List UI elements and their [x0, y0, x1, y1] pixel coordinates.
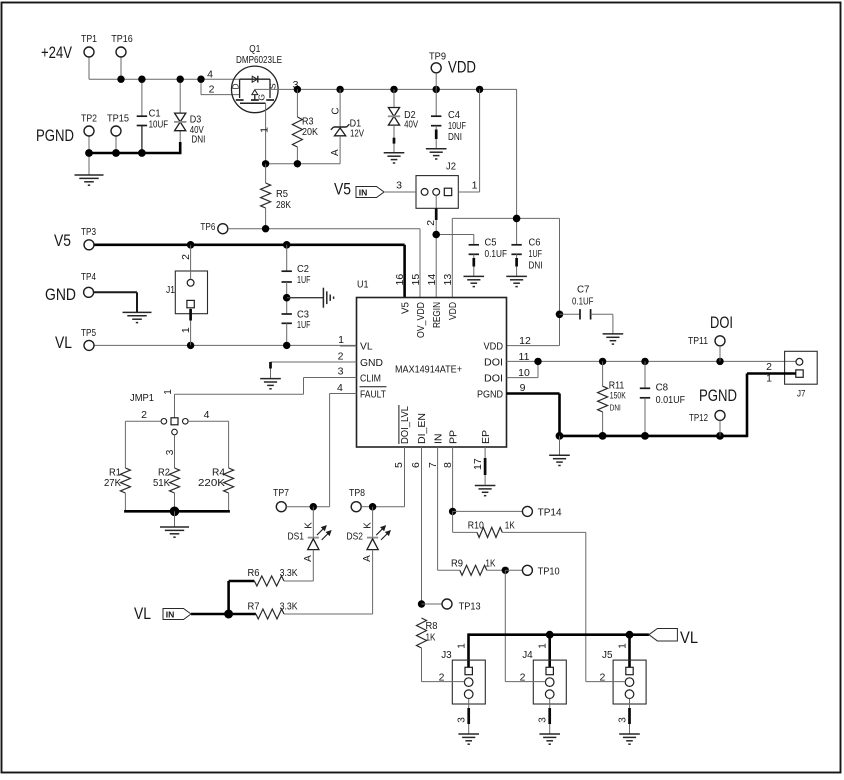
svg-text:12: 12 — [519, 335, 531, 347]
svg-text:D: D — [230, 83, 240, 89]
svg-text:DOI: DOI — [484, 356, 503, 368]
svg-text:3.3K: 3.3K — [280, 567, 298, 579]
svg-text:6: 6 — [410, 462, 422, 468]
svg-text:3: 3 — [396, 180, 402, 192]
svg-text:TP16: TP16 — [111, 33, 133, 45]
svg-text:VDD: VDD — [484, 341, 504, 353]
svg-text:A: A — [303, 555, 314, 562]
svg-text:27K: 27K — [104, 477, 121, 489]
svg-text:TP15: TP15 — [107, 113, 129, 125]
svg-text:VL: VL — [680, 629, 698, 647]
svg-text:3.3K: 3.3K — [280, 601, 298, 613]
svg-text:C8: C8 — [656, 382, 669, 394]
svg-text:R6: R6 — [248, 567, 260, 579]
svg-text:PGND: PGND — [477, 388, 503, 400]
svg-text:TP14: TP14 — [538, 507, 562, 519]
svg-text:220K: 220K — [198, 477, 225, 489]
svg-text:0.1UF: 0.1UF — [485, 248, 508, 260]
svg-text:TP11: TP11 — [688, 335, 708, 347]
svg-text:VL: VL — [134, 605, 151, 623]
svg-text:G: G — [256, 94, 266, 101]
svg-text:TP3: TP3 — [81, 226, 96, 238]
svg-text:2: 2 — [599, 672, 605, 684]
svg-text:DS1: DS1 — [288, 531, 305, 543]
svg-text:10: 10 — [518, 367, 530, 379]
svg-text:CLIM: CLIM — [360, 372, 381, 384]
svg-text:C6: C6 — [529, 236, 541, 248]
svg-text:TP10: TP10 — [538, 566, 560, 578]
svg-text:2: 2 — [439, 672, 445, 684]
svg-text:0.1UF: 0.1UF — [572, 296, 594, 308]
svg-text:J3: J3 — [441, 649, 452, 661]
svg-text:VL: VL — [360, 341, 373, 353]
svg-text:1: 1 — [472, 180, 478, 192]
svg-text:R7: R7 — [248, 601, 260, 613]
svg-text:1UF: 1UF — [529, 248, 543, 260]
svg-text:V5: V5 — [54, 232, 71, 250]
svg-text:1: 1 — [457, 643, 468, 649]
svg-text:DOI_LVL: DOI_LVL — [399, 406, 411, 444]
svg-text:V5: V5 — [399, 302, 411, 314]
svg-text:JMP1: JMP1 — [130, 392, 154, 404]
svg-text:C5: C5 — [485, 236, 497, 248]
svg-text:10UF: 10UF — [149, 118, 169, 130]
svg-text:12V: 12V — [350, 128, 364, 140]
svg-text:1: 1 — [618, 643, 629, 649]
svg-text:PGND: PGND — [699, 387, 737, 405]
svg-text:1: 1 — [338, 334, 344, 346]
svg-text:GND: GND — [45, 286, 76, 304]
svg-text:3: 3 — [457, 717, 468, 723]
svg-text:2: 2 — [425, 220, 437, 226]
svg-text:1: 1 — [180, 327, 192, 333]
svg-text:4: 4 — [207, 68, 213, 80]
svg-text:3: 3 — [338, 366, 344, 378]
svg-text:TP1: TP1 — [81, 33, 97, 45]
svg-text:R11: R11 — [609, 379, 625, 391]
svg-text:1UF: 1UF — [297, 274, 311, 286]
svg-text:4: 4 — [337, 382, 343, 394]
svg-text:9: 9 — [520, 382, 526, 394]
svg-text:DMP6023LE: DMP6023LE — [236, 54, 282, 66]
svg-text:14: 14 — [426, 274, 438, 286]
svg-text:1K: 1K — [426, 632, 436, 644]
svg-text:EP: EP — [480, 430, 492, 444]
svg-text:7: 7 — [427, 462, 439, 468]
svg-text:1K: 1K — [505, 520, 515, 532]
svg-text:K: K — [363, 522, 374, 529]
svg-text:DS2: DS2 — [347, 531, 364, 543]
svg-text:0.01UF: 0.01UF — [656, 394, 686, 406]
svg-text:40V: 40V — [404, 119, 418, 131]
svg-text:2: 2 — [209, 84, 215, 96]
svg-text:TP13: TP13 — [459, 601, 481, 613]
svg-text:4: 4 — [204, 409, 210, 421]
svg-text:1K: 1K — [485, 558, 495, 570]
svg-text:TP2: TP2 — [81, 113, 97, 125]
svg-text:S: S — [268, 83, 278, 89]
svg-text:J7: J7 — [797, 389, 806, 400]
svg-text:U1: U1 — [357, 279, 369, 291]
svg-text:8: 8 — [442, 462, 454, 468]
svg-text:R10: R10 — [468, 520, 484, 532]
svg-text:2: 2 — [338, 351, 344, 363]
svg-text:28K: 28K — [276, 199, 291, 211]
svg-text:TP8: TP8 — [349, 487, 365, 499]
svg-text:15: 15 — [410, 274, 422, 286]
svg-text:TP6: TP6 — [200, 221, 215, 233]
svg-text:REGIN: REGIN — [431, 302, 443, 328]
svg-text:MAX14914ATE+: MAX14914ATE+ — [395, 364, 462, 376]
svg-text:DI_EN: DI_EN — [416, 413, 428, 444]
svg-text:IN: IN — [359, 187, 368, 197]
svg-text:VDD: VDD — [448, 59, 476, 77]
svg-text:DNI: DNI — [610, 403, 621, 413]
svg-text:DNI: DNI — [448, 131, 462, 143]
svg-text:IN: IN — [432, 434, 444, 445]
svg-text:J5: J5 — [602, 649, 613, 661]
svg-text:+24V: +24V — [41, 44, 72, 62]
svg-text:J4: J4 — [522, 649, 533, 661]
svg-text:2: 2 — [520, 672, 526, 684]
svg-text:TP12: TP12 — [689, 412, 708, 424]
svg-text:PP: PP — [447, 430, 459, 444]
svg-text:FAULT: FAULT — [360, 388, 386, 400]
svg-text:K: K — [303, 522, 314, 529]
svg-text:R8: R8 — [426, 620, 438, 632]
svg-text:OV_VDD: OV_VDD — [415, 302, 427, 338]
svg-text:20K: 20K — [302, 126, 318, 138]
svg-text:PGND: PGND — [36, 127, 74, 145]
svg-text:DOI: DOI — [710, 314, 733, 332]
svg-text:VDD: VDD — [447, 302, 459, 320]
svg-text:DOI: DOI — [484, 372, 503, 384]
svg-text:C: C — [330, 107, 341, 114]
svg-text:1: 1 — [538, 643, 549, 649]
svg-text:TP7: TP7 — [273, 487, 289, 499]
svg-text:2: 2 — [766, 361, 772, 373]
svg-text:17: 17 — [472, 458, 484, 470]
svg-text:1: 1 — [258, 127, 270, 133]
svg-text:5: 5 — [393, 462, 405, 468]
svg-text:3: 3 — [618, 717, 629, 723]
svg-text:16: 16 — [394, 274, 406, 286]
svg-text:R9: R9 — [451, 558, 463, 570]
svg-text:2: 2 — [141, 409, 147, 421]
svg-text:TP9: TP9 — [429, 51, 446, 63]
svg-text:TP5: TP5 — [81, 327, 96, 339]
svg-text:2: 2 — [180, 254, 192, 260]
svg-text:DNI: DNI — [191, 133, 205, 145]
svg-text:13: 13 — [442, 274, 454, 286]
svg-text:GND: GND — [360, 357, 383, 369]
svg-text:1: 1 — [163, 389, 174, 395]
svg-text:A: A — [330, 149, 341, 156]
svg-text:51K: 51K — [153, 477, 170, 489]
svg-text:11: 11 — [519, 351, 530, 363]
svg-text:A: A — [362, 555, 373, 562]
svg-text:3: 3 — [538, 717, 549, 723]
svg-text:IN: IN — [166, 609, 175, 619]
svg-text:1UF: 1UF — [297, 319, 311, 331]
svg-text:C7: C7 — [577, 283, 590, 295]
svg-text:J2: J2 — [446, 161, 456, 173]
svg-text:VL: VL — [55, 334, 72, 352]
svg-text:TP4: TP4 — [81, 271, 96, 283]
svg-text:150K: 150K — [610, 391, 626, 402]
svg-text:DNI: DNI — [529, 259, 543, 271]
svg-text:V5: V5 — [334, 181, 351, 199]
svg-text:J1: J1 — [166, 284, 175, 296]
